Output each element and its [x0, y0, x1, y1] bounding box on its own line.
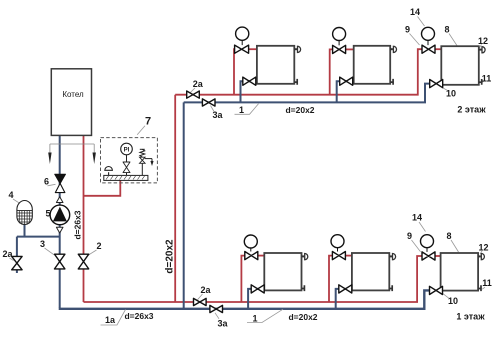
- svg-text:1 этаж: 1 этаж: [456, 311, 485, 321]
- radiator B floor1: [352, 253, 389, 290]
- wire return radB floor1: [336, 289, 352, 309]
- wire bottom blue main floor1: [59, 290, 431, 308]
- leader 12 floor2: [480, 45, 482, 48]
- pump 5: [50, 205, 70, 225]
- leader 14 floor1: [419, 222, 426, 232]
- wire return radA floor1: [248, 289, 264, 309]
- plug radA floor2: [294, 79, 297, 85]
- wire floor2 blue main: [184, 84, 431, 103]
- wire tank drain drop: [16, 237, 18, 257]
- return valve radA floor1: [251, 285, 264, 293]
- leader 11 floor1: [482, 287, 485, 289]
- leader 6: [48, 184, 56, 186]
- valve 2a tank drain: [12, 256, 22, 269]
- leader 2: [89, 250, 97, 255]
- safety group box: [101, 138, 158, 183]
- wire red riser to floor2: [174, 95, 176, 302]
- plug radA floor1: [302, 285, 305, 291]
- svg-text:3: 3: [40, 239, 45, 249]
- svg-text:d=20х2: d=20х2: [288, 312, 317, 322]
- svg-text:4: 4: [8, 190, 13, 200]
- air vent radC floor2: [479, 47, 485, 53]
- svg-text:9: 9: [407, 231, 412, 241]
- wire safety-group link: [84, 181, 121, 196]
- leader 11 floor2: [482, 81, 485, 83]
- pressure gauge PI: [121, 143, 133, 175]
- radiator C floor2: [441, 46, 479, 85]
- air vent dome: [105, 167, 113, 176]
- wire boiler return drop: [59, 135, 61, 308]
- air vent radB floor1: [389, 254, 395, 260]
- leader 8 floor2: [449, 34, 457, 46]
- wire riser radA floor2: [234, 49, 237, 94]
- svg-text:2 этаж: 2 этаж: [457, 104, 486, 114]
- wire stub valveA-f2 to radiator: [249, 48, 257, 50]
- plug radB floor2: [390, 79, 393, 85]
- radiator C floor1: [441, 253, 479, 291]
- thermostatic valve radB floor2: [333, 28, 346, 54]
- svg-text:1а: 1а: [105, 315, 116, 325]
- leader 9 floor1: [412, 240, 421, 252]
- leader 8 floor1: [451, 240, 459, 252]
- wire tank drain stub: [16, 270, 18, 273]
- plug radB floor1: [389, 285, 392, 291]
- radiator A floor1: [264, 253, 301, 290]
- svg-text:8: 8: [446, 231, 451, 241]
- wire blue riser to floor2: [183, 102, 185, 308]
- svg-text:d=20х2: d=20х2: [285, 105, 314, 115]
- thermostatic valve radC floor1: [421, 235, 436, 260]
- svg-text:2а: 2а: [2, 249, 13, 259]
- wire tank stem: [24, 224, 26, 237]
- return valve radA floor2: [243, 77, 256, 85]
- air vent radA floor2: [294, 46, 300, 52]
- svg-text:Котел: Котел: [62, 90, 84, 99]
- svg-text:5: 5: [45, 208, 50, 218]
- manifold: [104, 175, 148, 180]
- leader 3a floor1: [215, 313, 219, 319]
- leader 10 floor2: [439, 86, 448, 91]
- wire riser radB floor2: [330, 49, 333, 94]
- svg-text:2а: 2а: [200, 285, 211, 295]
- return valve radB floor2: [340, 77, 353, 85]
- leader 1 floor1: [247, 309, 283, 322]
- wire expansion tank branch: [17, 236, 60, 238]
- air vent radC floor1: [478, 254, 484, 260]
- thermostatic valve radB floor1: [331, 235, 345, 260]
- plug radC floor2: [479, 79, 482, 85]
- svg-text:d=20х2: d=20х2: [165, 239, 176, 274]
- thermostatic valve radA floor1: [244, 235, 257, 260]
- svg-text:12: 12: [478, 36, 488, 46]
- safety relief valve: [140, 149, 153, 175]
- svg-text:9: 9: [405, 24, 410, 34]
- leader 9 floor2: [410, 34, 420, 46]
- svg-text:12: 12: [478, 242, 488, 252]
- wire boiler supply drop: [83, 135, 85, 302]
- svg-text:d=26х3: d=26х3: [124, 311, 153, 321]
- wire stub valveB-f2 to radiator: [346, 48, 354, 50]
- air vent radA floor1: [302, 254, 308, 260]
- svg-text:1: 1: [239, 105, 244, 115]
- wire return radA floor2: [241, 81, 258, 102]
- leader 4: [13, 199, 20, 203]
- leader 2a floor1: [198, 294, 203, 300]
- svg-text:7: 7: [145, 116, 151, 128]
- valve 2: [78, 254, 88, 269]
- thermostatic valve radA floor2: [235, 27, 249, 53]
- valve 2a floor2: [187, 91, 200, 98]
- wire red stub valveC-f1 to radiator: [435, 255, 441, 257]
- leader 1a: [101, 310, 126, 326]
- svg-text:10: 10: [446, 89, 456, 99]
- expansion tank: [17, 201, 32, 225]
- union below pump: [56, 227, 63, 233]
- plug radC floor1: [478, 285, 481, 291]
- radiator B floor2: [354, 46, 391, 84]
- svg-text:8: 8: [444, 24, 449, 34]
- wire return radB floor2: [337, 81, 354, 102]
- radiator A floor2: [257, 46, 294, 84]
- wire stub valveA-f1 to radiator: [258, 255, 265, 257]
- valve 2a floor1: [194, 298, 207, 305]
- svg-text:1: 1: [252, 313, 257, 323]
- return valve radB floor1: [339, 285, 352, 293]
- wire blue stub valveC-f1 to radiator: [442, 289, 445, 291]
- valve 3a floor1: [210, 305, 223, 312]
- svg-text:3а: 3а: [217, 318, 228, 328]
- wire blue stub valveC-f2 to radiator: [442, 83, 445, 85]
- svg-text:d=26х3: d=26х3: [73, 210, 83, 239]
- leader 1 floor2: [235, 104, 259, 115]
- union above pump: [56, 197, 63, 203]
- wire stub valveB-f1 to radiator: [345, 255, 352, 257]
- svg-text:6: 6: [44, 177, 49, 187]
- wire riser radA floor1: [241, 256, 245, 302]
- thermostatic valve radC floor2: [422, 27, 436, 53]
- svg-text:PI: PI: [124, 147, 130, 153]
- leader 14 floor2: [418, 17, 425, 27]
- return valve radC floor1: [430, 286, 443, 294]
- leader 2a floor2: [190, 88, 195, 93]
- svg-text:14: 14: [412, 212, 422, 222]
- svg-text:2: 2: [96, 241, 101, 251]
- svg-text:11: 11: [482, 73, 492, 83]
- valve 3a floor2: [202, 99, 215, 106]
- svg-text:11: 11: [482, 278, 492, 288]
- air vent radB floor2: [390, 46, 396, 52]
- valve 3: [55, 254, 65, 269]
- wire red stub valveC-f2 to radiator: [435, 48, 441, 50]
- check valve 6: [55, 174, 66, 192]
- svg-text:14: 14: [410, 7, 420, 17]
- wire riser radB floor1: [329, 256, 333, 302]
- flow direction indicator: [48, 144, 96, 164]
- leader 12 floor1: [480, 251, 482, 254]
- svg-text:3а: 3а: [212, 110, 223, 120]
- svg-text:2а: 2а: [193, 79, 204, 89]
- leader 2a tank: [10, 258, 14, 261]
- leader 10 floor1: [442, 293, 450, 299]
- wire floor2 red main: [175, 49, 422, 94]
- svg-text:10: 10: [448, 296, 458, 306]
- leader 7: [137, 126, 145, 135]
- wire bottom red main floor1: [84, 256, 423, 302]
- return valve radC floor2: [430, 80, 443, 88]
- leader 3: [45, 248, 55, 255]
- boiler: [51, 69, 91, 136]
- leader 3a floor2: [211, 106, 215, 112]
